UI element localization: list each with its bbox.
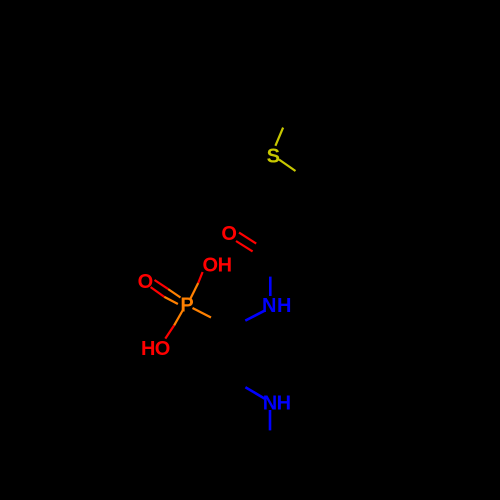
bond C(=O)-N1 (blue half) <box>269 277 272 296</box>
svg-text:O: O <box>221 223 237 245</box>
bond N1-C central (blue half) <box>245 310 265 320</box>
bond P-O4 orange half <box>174 310 183 325</box>
svg-text:S: S <box>267 146 280 168</box>
bond P-O2 orange half <box>191 283 199 299</box>
svg-text:O: O <box>138 271 154 293</box>
svg-text:H: H <box>277 393 291 415</box>
bond P-C (orange half) <box>193 308 212 318</box>
svg-text:O: O <box>203 254 219 276</box>
bond N2-CH3 (blue half) <box>269 410 272 430</box>
bond S1-CH3 (yellow half) <box>275 128 283 146</box>
bond C=O1 line a (red half) <box>239 233 256 244</box>
bond CH2-N2 (blue half) <box>245 387 264 398</box>
svg-text:H: H <box>141 338 155 360</box>
svg-text:H: H <box>277 295 291 317</box>
bond P=O3 line b red half <box>151 287 165 297</box>
svg-text:H: H <box>218 254 232 276</box>
bond S1-ring (yellow half) <box>279 160 296 172</box>
bond P=O3 line a orange half <box>168 289 180 297</box>
bond P-O4 red half <box>165 325 174 338</box>
svg-text:N: N <box>262 295 276 317</box>
bond P=O3 line a red half <box>155 280 169 289</box>
bond C=O1 line b (red half) <box>236 241 253 251</box>
bond P=O3 line b orange half <box>164 297 178 304</box>
svg-text:O: O <box>155 338 171 360</box>
bond P-O2 red half <box>198 272 202 283</box>
